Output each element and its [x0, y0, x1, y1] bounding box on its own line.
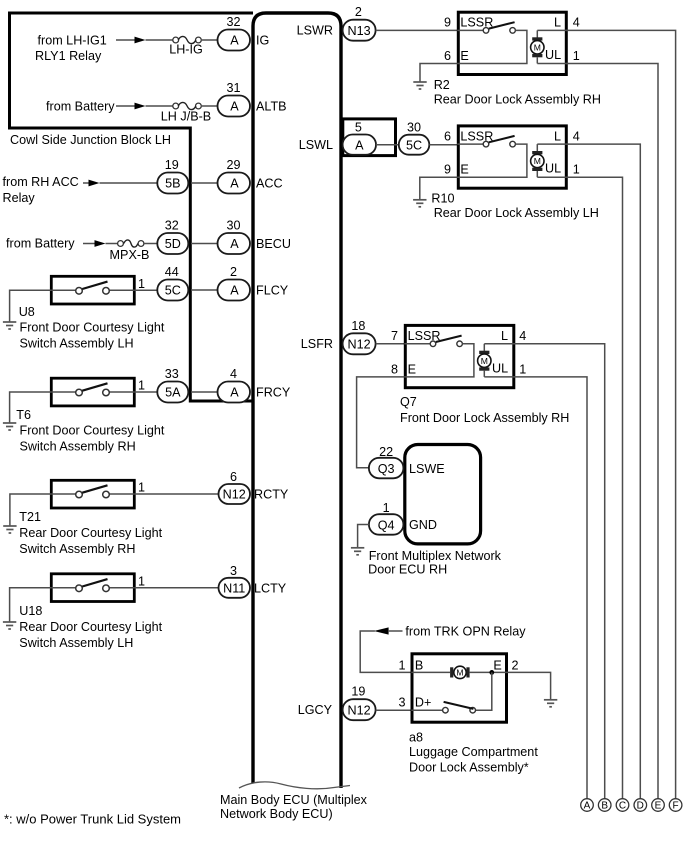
- pin 6 wire to ground: [420, 64, 457, 82]
- svg-text:2: 2: [512, 658, 519, 672]
- connector A pin 29: [218, 173, 251, 194]
- svg-text:Front Multiplex Network: Front Multiplex Network: [369, 549, 502, 563]
- ground: [544, 700, 557, 707]
- svg-text:Front Door Courtesy Light: Front Door Courtesy Light: [20, 424, 165, 438]
- door lock R10: Rear Door Lock Assembly LH: [413, 126, 640, 799]
- node FLCY (pins 44 / 2): [157, 265, 288, 301]
- switch lever: [82, 282, 107, 289]
- connector 5A pin 33: [157, 382, 188, 403]
- node LSWR (pin 2): [297, 5, 457, 41]
- fuse MPX-B: [118, 241, 124, 247]
- svg-text:LSWR: LSWR: [297, 24, 333, 38]
- svg-text:E: E: [460, 163, 468, 177]
- switch U18: Rear Door Courtesy Light Switch Assembly LH: [3, 574, 219, 650]
- svg-text:M: M: [481, 356, 488, 366]
- svg-text:Q4: Q4: [378, 518, 395, 532]
- switch LSSR: [457, 29, 483, 31]
- ECU bottom break wave: [239, 782, 350, 789]
- wire: [376, 709, 411, 711]
- wire pin4 to bus F: [566, 30, 675, 798]
- node ALTB (pin 31): [46, 81, 287, 124]
- svg-text:18: 18: [351, 319, 365, 333]
- svg-text:L: L: [554, 16, 561, 30]
- svg-text:L: L: [501, 329, 508, 343]
- connector A pin 31: [218, 96, 251, 117]
- svg-text:31: 31: [226, 81, 240, 95]
- wire pin4 to bus B: [514, 344, 605, 799]
- wire dot to switch: [476, 672, 492, 710]
- svg-text:D: D: [637, 801, 644, 812]
- wire to ground: [10, 290, 52, 321]
- ground: [413, 200, 426, 207]
- node RCTY (pin 6): [219, 470, 289, 504]
- svg-text:Luggage Compartment: Luggage Compartment: [409, 745, 538, 759]
- connector A pin 32: [218, 30, 251, 51]
- wire pin4 to bus D: [566, 144, 640, 799]
- svg-text:5C: 5C: [165, 284, 181, 298]
- arrow left: [374, 627, 389, 634]
- svg-text:LGCY: LGCY: [298, 703, 333, 717]
- svg-text:5C: 5C: [406, 138, 422, 152]
- svg-text:5D: 5D: [165, 237, 181, 251]
- connector A pin 2: [218, 280, 251, 301]
- ground: [3, 423, 16, 430]
- svg-text:9: 9: [444, 16, 451, 30]
- wire: [201, 39, 219, 41]
- bus terminal F: [669, 799, 682, 812]
- svg-text:Front Door Courtesy Light: Front Door Courtesy Light: [20, 321, 165, 335]
- connector 5D pin 32: [157, 233, 188, 254]
- svg-text:FLCY: FLCY: [256, 284, 289, 298]
- wire pin1 to bus E: [566, 64, 658, 799]
- svg-text:Switch Assembly RH: Switch Assembly RH: [20, 440, 136, 454]
- connector A pin 5: [343, 135, 376, 155]
- svg-text:32: 32: [226, 15, 240, 29]
- svg-text:4: 4: [573, 16, 580, 30]
- arrow right: [89, 180, 100, 187]
- svg-text:FRCY: FRCY: [256, 386, 291, 400]
- L wire pin 4: [537, 29, 568, 31]
- svg-text:Rear Door Courtesy Light: Rear Door Courtesy Light: [19, 526, 162, 540]
- svg-text:U18: U18: [19, 604, 42, 618]
- svg-text:6: 6: [444, 49, 451, 63]
- lock a8: Luggage Compartment Door Lock Assembly: [398, 654, 557, 775]
- switch contacts: [76, 288, 83, 295]
- LSWL connector box: [343, 119, 396, 156]
- node FRCY (pins 33 / 4): [157, 367, 291, 403]
- svg-text:RCTY: RCTY: [254, 488, 289, 502]
- door lock R2: Rear Door Lock Assembly RH: [413, 12, 675, 798]
- ground: [351, 548, 364, 555]
- svg-text:1: 1: [138, 575, 145, 589]
- svg-text:1: 1: [573, 49, 580, 63]
- svg-text:N11: N11: [223, 581, 245, 595]
- svg-text:2: 2: [230, 265, 237, 279]
- svg-text:LSSR: LSSR: [460, 16, 493, 30]
- door lock Q7: Front Door Lock Assembly RH: [357, 325, 605, 798]
- motor UL: [483, 344, 485, 351]
- svg-text:GND: GND: [409, 518, 437, 532]
- switch: [411, 709, 442, 711]
- svg-text:22: 22: [379, 445, 393, 459]
- svg-text:5: 5: [355, 120, 362, 134]
- motor UL: [536, 144, 538, 151]
- svg-text:LSWE: LSWE: [409, 462, 445, 476]
- svg-text:LSSR: LSSR: [460, 129, 493, 143]
- svg-text:30: 30: [407, 120, 421, 134]
- wire Q4 to ground: [358, 525, 369, 548]
- svg-text:E: E: [408, 362, 416, 376]
- node LSFR (pin 18): [301, 319, 404, 355]
- switch T21: Rear Door Courtesy Light Switch Assembly RH: [3, 480, 218, 556]
- L wire pin 4: [537, 143, 568, 145]
- svg-text:Door Lock Assembly*: Door Lock Assembly*: [409, 761, 529, 775]
- svg-text:E: E: [493, 658, 501, 672]
- svg-text:Rear Door Courtesy Light: Rear Door Courtesy Light: [19, 620, 162, 634]
- svg-text:M: M: [534, 42, 541, 52]
- svg-text:3: 3: [398, 695, 405, 709]
- svg-text:F: F: [673, 801, 679, 812]
- svg-text:1: 1: [138, 481, 145, 495]
- svg-text:N12: N12: [223, 488, 246, 502]
- wire: [429, 144, 457, 146]
- Cowl Side Junction Block LH box: [10, 13, 254, 401]
- junction dot: [489, 670, 494, 675]
- ECU U-main: Main Body ECU (Multiplex Network Body ECU): [220, 13, 368, 821]
- connector 5C pin 30: [399, 135, 430, 155]
- node LCTY (pin 3): [219, 564, 287, 598]
- svg-text:33: 33: [165, 367, 179, 381]
- svg-text:A: A: [230, 100, 239, 114]
- svg-text:A: A: [230, 177, 239, 191]
- svg-text:1: 1: [398, 658, 405, 672]
- bus terminal D: [634, 799, 647, 812]
- svg-text:ALTB: ALTB: [256, 100, 287, 114]
- svg-text:A: A: [230, 237, 239, 251]
- ground: [3, 322, 16, 329]
- wire pin1 to bus A: [514, 377, 587, 799]
- svg-text:*: w/o Power Trunk Lid System: *: w/o Power Trunk Lid System: [4, 812, 181, 827]
- arrow right: [95, 240, 106, 247]
- svg-text:LH J/B-B: LH J/B-B: [161, 110, 211, 124]
- svg-text:4: 4: [519, 329, 526, 343]
- svg-text:from RH ACC: from RH ACC: [3, 175, 79, 189]
- svg-text:N12: N12: [348, 703, 371, 717]
- svg-text:from TRK OPN Relay: from TRK OPN Relay: [405, 625, 526, 639]
- svg-text:N13: N13: [348, 24, 371, 38]
- svg-text:1: 1: [138, 379, 145, 393]
- wire switch to E: [457, 144, 527, 177]
- svg-text:2: 2: [355, 5, 362, 19]
- svg-text:44: 44: [165, 265, 179, 279]
- svg-text:Main Body ECU (Multiplex: Main Body ECU (Multiplex: [220, 793, 368, 807]
- svg-text:6: 6: [230, 470, 237, 484]
- svg-text:UL: UL: [492, 361, 508, 375]
- motor: [411, 671, 450, 673]
- wire switch to E: [457, 30, 527, 63]
- svg-text:4: 4: [573, 129, 580, 143]
- svg-text:8: 8: [391, 362, 398, 376]
- svg-text:D+: D+: [415, 695, 431, 709]
- wire: [116, 39, 136, 41]
- svg-text:19: 19: [165, 158, 179, 172]
- svg-text:1: 1: [383, 501, 390, 515]
- svg-text:E: E: [460, 49, 468, 63]
- svg-text:C: C: [619, 801, 626, 812]
- wire to luggage pin 1: [360, 631, 411, 672]
- wire: [134, 289, 157, 291]
- wire: [376, 29, 457, 31]
- wire pin8 to Q3: [357, 377, 405, 468]
- svg-text:19: 19: [351, 685, 365, 699]
- node LGCY (pin 19): [298, 685, 411, 721]
- svg-text:5B: 5B: [165, 177, 180, 191]
- svg-text:A: A: [230, 34, 239, 48]
- bus terminal A: [581, 799, 594, 812]
- svg-text:30: 30: [226, 219, 240, 233]
- svg-text:U8: U8: [19, 305, 35, 319]
- bus terminal B: [598, 799, 611, 812]
- svg-text:T6: T6: [16, 408, 31, 422]
- connector 5C pin 44: [157, 280, 188, 301]
- svg-text:R2: R2: [434, 78, 450, 92]
- svg-text:ACC: ACC: [256, 177, 283, 191]
- pin2 wire to ground: [508, 672, 551, 699]
- connector N11 pin 3: [219, 578, 251, 598]
- bus terminal E: [652, 799, 665, 812]
- svg-text:UL: UL: [545, 162, 561, 176]
- svg-text:R10: R10: [431, 192, 454, 206]
- svg-text:UL: UL: [545, 48, 561, 62]
- svg-text:A: A: [230, 284, 239, 298]
- svg-text:A: A: [355, 138, 364, 152]
- svg-text:1: 1: [138, 277, 145, 291]
- svg-text:6: 6: [444, 129, 451, 143]
- svg-text:Cowl Side Junction Block LH: Cowl Side Junction Block LH: [10, 133, 171, 147]
- svg-text:N12: N12: [348, 337, 371, 351]
- svg-text:9: 9: [444, 163, 451, 177]
- svg-text:LSWL: LSWL: [299, 138, 333, 152]
- svg-text:5A: 5A: [165, 386, 181, 400]
- svg-text:MPX-B: MPX-B: [110, 248, 150, 262]
- svg-text:Q3: Q3: [378, 462, 395, 476]
- svg-text:L: L: [554, 129, 561, 143]
- wire into box: [51, 289, 75, 291]
- wire switch to E: [404, 344, 474, 377]
- wire: [146, 39, 174, 41]
- wire: [376, 144, 399, 146]
- ground: [3, 622, 16, 629]
- svg-text:B: B: [601, 801, 608, 812]
- node IG (pin 32): [35, 15, 269, 63]
- svg-text:29: 29: [226, 158, 240, 172]
- svg-text:LCTY: LCTY: [254, 581, 287, 595]
- pin 9 wire to ground: [420, 177, 458, 199]
- svg-text:Front Door Lock Assembly RH: Front Door Lock Assembly RH: [400, 411, 569, 425]
- connector Q3 pin 22: [369, 458, 404, 479]
- svg-text:BECU: BECU: [256, 237, 291, 251]
- node LSWL (pins 5 / 30): [299, 119, 457, 156]
- svg-text:1: 1: [519, 362, 526, 376]
- svg-text:Network Body ECU): Network Body ECU): [220, 807, 333, 821]
- connector 5B pin 19: [157, 173, 188, 194]
- ECU Q5: Front Multiplex Network Door ECU RH: [351, 445, 502, 577]
- L wire pin 4: [484, 343, 515, 345]
- arrow right: [135, 103, 146, 110]
- switch U8: Front Door Courtesy Light Switch Assembly LH: [3, 276, 165, 350]
- svg-text:B: B: [415, 658, 423, 672]
- svg-text:from Battery: from Battery: [6, 237, 75, 251]
- svg-text:Switch Assembly RH: Switch Assembly RH: [19, 542, 135, 556]
- svg-text:Rear Door Lock Assembly LH: Rear Door Lock Assembly LH: [434, 206, 599, 220]
- TRK OPN relay feed: [360, 625, 526, 673]
- ground: [3, 526, 16, 533]
- svg-text:Relay: Relay: [3, 191, 36, 205]
- motor UL: [536, 30, 538, 37]
- switch LSSR: [457, 143, 483, 145]
- svg-text:LSFR: LSFR: [301, 337, 333, 351]
- svg-text:T21: T21: [19, 510, 41, 524]
- arrow right: [135, 37, 146, 44]
- svg-text:LH-IG: LH-IG: [169, 43, 203, 57]
- svg-text:RLY1 Relay: RLY1 Relay: [35, 49, 102, 63]
- svg-text:3: 3: [230, 564, 237, 578]
- connector A pin 4: [218, 382, 251, 403]
- bus terminal C: [616, 799, 629, 812]
- svg-text:32: 32: [165, 219, 179, 233]
- node ACC (pins 19 / 29): [3, 158, 283, 205]
- node BECU (pins 32 / 30): [6, 219, 291, 263]
- svg-text:M: M: [456, 668, 463, 678]
- fuse LH J/B-B: [173, 103, 179, 109]
- svg-text:Rear Door Lock Assembly RH: Rear Door Lock Assembly RH: [434, 92, 601, 106]
- svg-text:A: A: [230, 386, 239, 400]
- svg-text:a8: a8: [409, 731, 423, 745]
- svg-text:1: 1: [573, 163, 580, 177]
- ground: [413, 82, 426, 89]
- switch T6: Front Door Courtesy Light Switch Assembly RH: [3, 378, 165, 453]
- svg-text:from LH-IG1: from LH-IG1: [38, 34, 107, 48]
- svg-text:from Battery: from Battery: [46, 100, 115, 114]
- svg-text:LSSR: LSSR: [408, 329, 441, 343]
- svg-text:E: E: [655, 801, 662, 812]
- svg-text:Switch Assembly LH: Switch Assembly LH: [19, 636, 133, 650]
- svg-text:Q7: Q7: [400, 395, 417, 409]
- svg-text:Door ECU RH: Door ECU RH: [368, 563, 447, 577]
- svg-text:M: M: [534, 156, 541, 166]
- connector N12 pin 6: [219, 484, 251, 504]
- wire: [191, 182, 219, 184]
- switch LSSR: [404, 343, 430, 345]
- wire pin1 to bus C: [566, 177, 622, 798]
- svg-text:IG: IG: [256, 34, 269, 48]
- wire: [376, 343, 404, 345]
- svg-text:A: A: [584, 801, 591, 812]
- svg-text:Switch Assembly LH: Switch Assembly LH: [20, 337, 134, 351]
- fuse LH-IG: [173, 37, 179, 43]
- svg-text:4: 4: [230, 367, 237, 381]
- connector Q4 pin 1: [369, 514, 404, 535]
- svg-text:7: 7: [391, 329, 398, 343]
- connector A pin 30: [218, 233, 251, 254]
